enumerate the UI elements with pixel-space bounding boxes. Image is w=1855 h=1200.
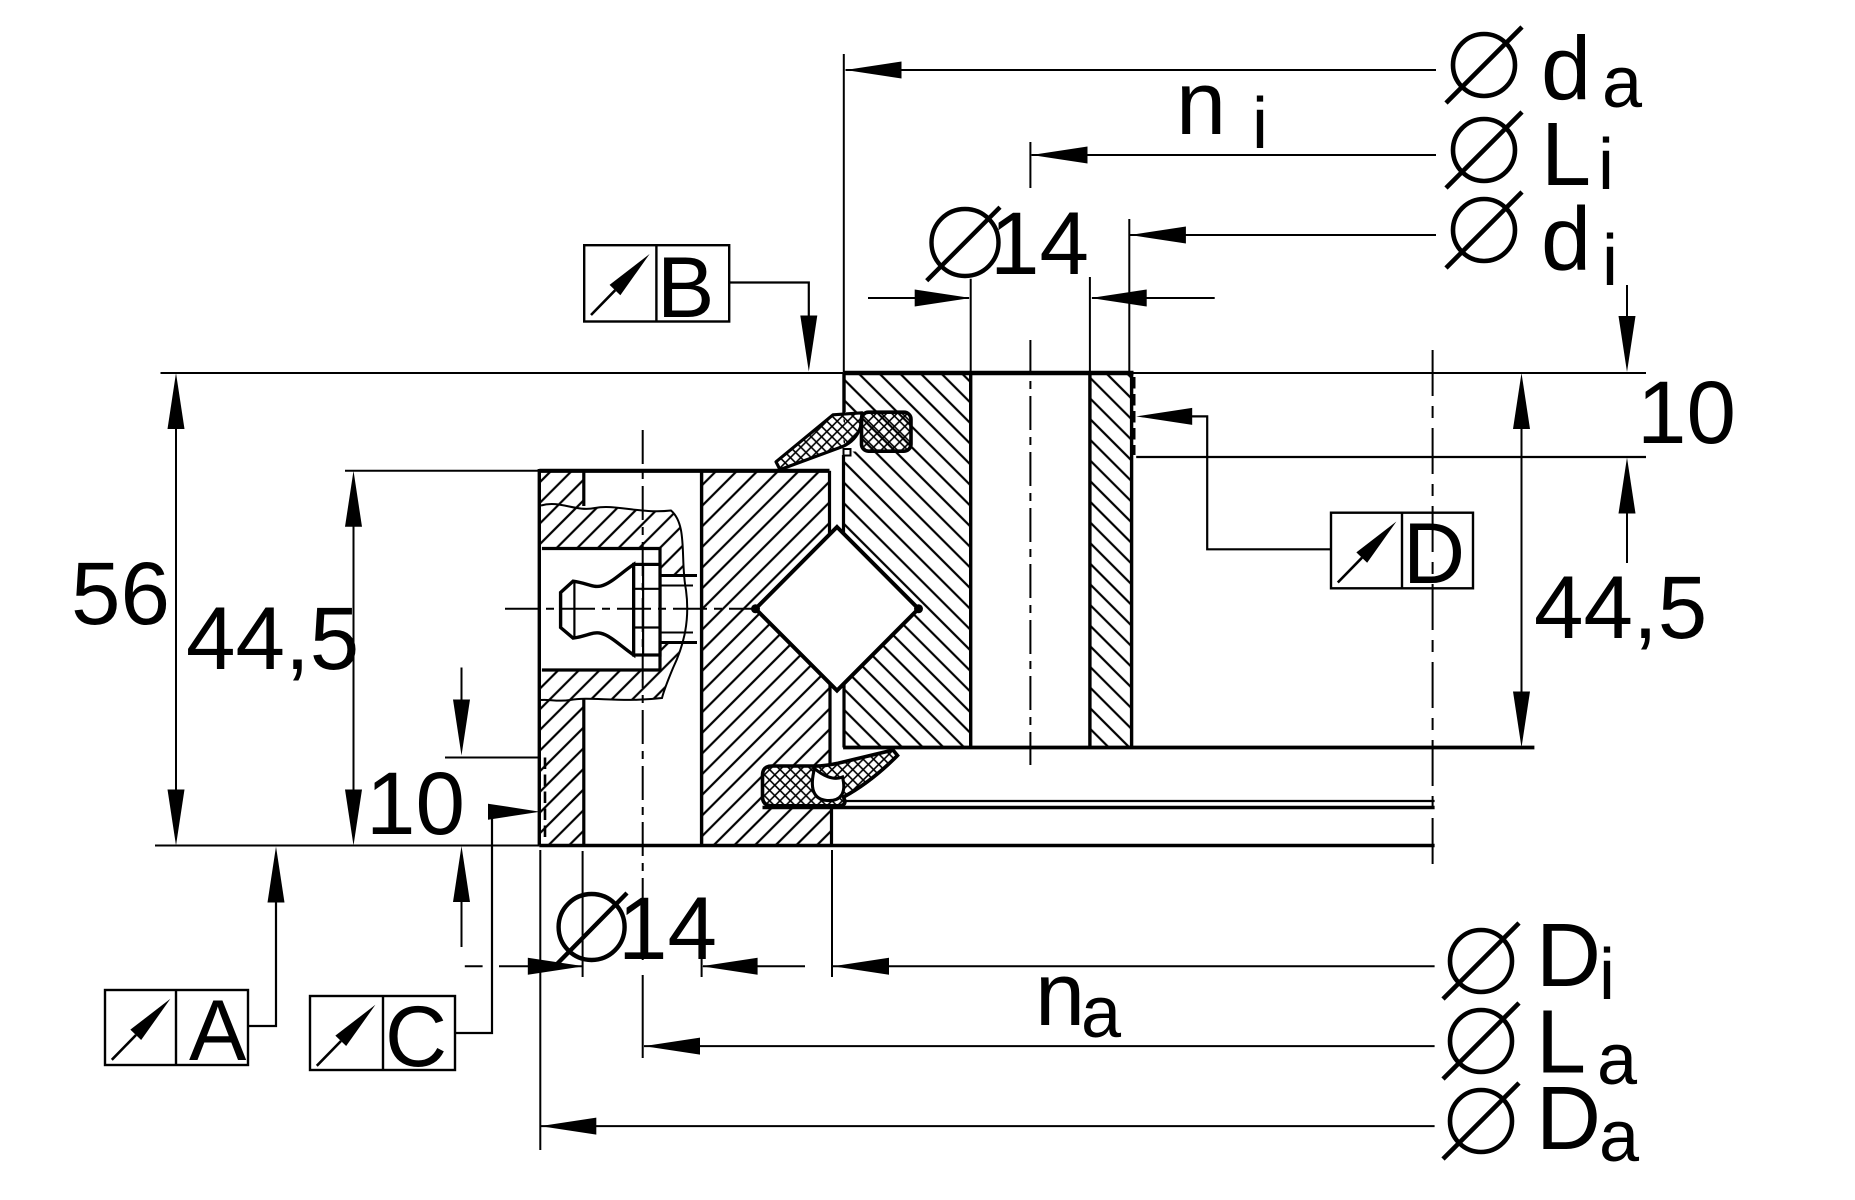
svg-text:44,5: 44,5 xyxy=(1534,557,1707,657)
svg-text:C: C xyxy=(385,989,447,1085)
engaged thread lines xyxy=(660,574,697,577)
dia L_a / n_a xyxy=(644,1045,1435,1047)
outer ring left face xyxy=(538,469,541,846)
bottom seal xyxy=(763,750,898,806)
dia L_i / n_i xyxy=(1032,154,1437,156)
svg-text:10: 10 xyxy=(1637,362,1736,462)
svg-text:A: A xyxy=(189,983,247,1079)
inner ring mounting hole (white) xyxy=(971,373,1090,746)
centerlines xyxy=(505,340,1433,960)
svg-text:14: 14 xyxy=(990,193,1089,293)
dia 14 top xyxy=(868,297,969,299)
dia d_i xyxy=(1130,234,1436,236)
svg-text:D: D xyxy=(1403,506,1465,602)
dia d_a xyxy=(846,69,1437,71)
44,5 left xyxy=(353,526,355,790)
44,5 right xyxy=(1521,428,1523,692)
svg-text:10: 10 xyxy=(366,753,465,853)
svg-text:n: n xyxy=(1035,945,1085,1045)
wavy break line xyxy=(541,504,687,701)
screw head (socket cap screw) xyxy=(561,564,634,655)
dia D_a xyxy=(540,1125,1434,1127)
datum arrow symbols xyxy=(112,254,1397,1066)
inner ring seal clamp nub xyxy=(844,449,851,456)
svg-text:i: i xyxy=(1599,935,1615,1015)
svg-text:14: 14 xyxy=(618,878,717,978)
svg-text:a: a xyxy=(1081,973,1122,1053)
10 right xyxy=(1626,285,1628,316)
seal groove xyxy=(830,808,833,846)
svg-text:d: d xyxy=(1541,190,1591,290)
extension lines xyxy=(155,54,1646,1150)
outer ring top face xyxy=(539,469,829,473)
roller pocket slot edges xyxy=(828,471,831,535)
dimension lines with arrowheads xyxy=(176,70,1627,1126)
roller (crossed roller, square section) xyxy=(756,527,919,691)
datum leaders xyxy=(248,283,1331,1034)
svg-text:44,5: 44,5 xyxy=(186,588,359,688)
arrowheads xyxy=(846,62,902,79)
svg-text:a: a xyxy=(1597,1020,1638,1100)
dia 14 bottom xyxy=(465,965,483,967)
bottom face xyxy=(539,844,1434,848)
svg-text:a: a xyxy=(1599,1097,1640,1177)
inner ring body (hatched) xyxy=(844,373,1132,746)
outer ring mounting hole (white) xyxy=(584,471,702,846)
svg-text:i: i xyxy=(1252,84,1268,164)
inner ring bore edge xyxy=(1130,373,1133,746)
top face of inner ring (thick) xyxy=(843,371,1133,375)
datum boxes xyxy=(105,245,1473,1070)
top seal body xyxy=(862,412,912,451)
svg-text:n: n xyxy=(1176,54,1226,154)
break-out section around screw xyxy=(539,503,699,703)
inner ring / shaft seat face xyxy=(843,746,1534,750)
10 left xyxy=(461,668,463,701)
top seal white backing xyxy=(845,412,862,452)
svg-text:D: D xyxy=(1536,1069,1601,1169)
part outlines xyxy=(539,373,1646,846)
inner ring left edge above seal xyxy=(842,373,845,413)
outer ring hole edges xyxy=(582,471,585,506)
svg-text:D: D xyxy=(1536,906,1601,1006)
outer ring body (hatched) xyxy=(539,471,831,846)
top seal lip xyxy=(776,413,862,470)
tapped thread zone (white) xyxy=(660,576,697,643)
svg-text:i: i xyxy=(1598,125,1614,205)
svg-text:B: B xyxy=(657,240,714,336)
svg-text:i: i xyxy=(1602,221,1618,301)
dia D_i xyxy=(833,965,1435,967)
datum target dashed lines xyxy=(545,377,1134,841)
adjacent structure top face right xyxy=(1136,456,1646,458)
svg-text:56: 56 xyxy=(71,543,170,643)
svg-text:a: a xyxy=(1602,43,1643,123)
56 xyxy=(175,428,177,790)
counterbore interior (white) xyxy=(540,549,660,671)
slinger double line xyxy=(847,800,1435,802)
inner ring hole edges xyxy=(969,373,972,746)
counterbore outline xyxy=(542,549,660,671)
diameter symbols xyxy=(556,27,1522,1159)
